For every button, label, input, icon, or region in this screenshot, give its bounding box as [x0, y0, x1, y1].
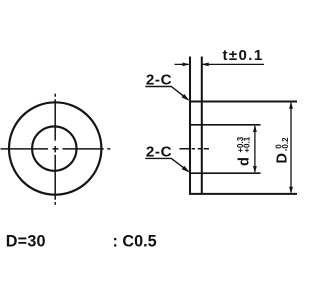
svg-text:2-C: 2-C — [146, 144, 172, 161]
svg-text:d+0.3+0.1: d+0.3+0.1 — [236, 136, 252, 166]
svg-text:D=30: D=30 — [6, 232, 46, 250]
svg-text:t±0.1: t±0.1 — [223, 47, 264, 64]
svg-text:: C0.5: : C0.5 — [113, 232, 157, 250]
svg-text:2-C: 2-C — [146, 72, 172, 89]
